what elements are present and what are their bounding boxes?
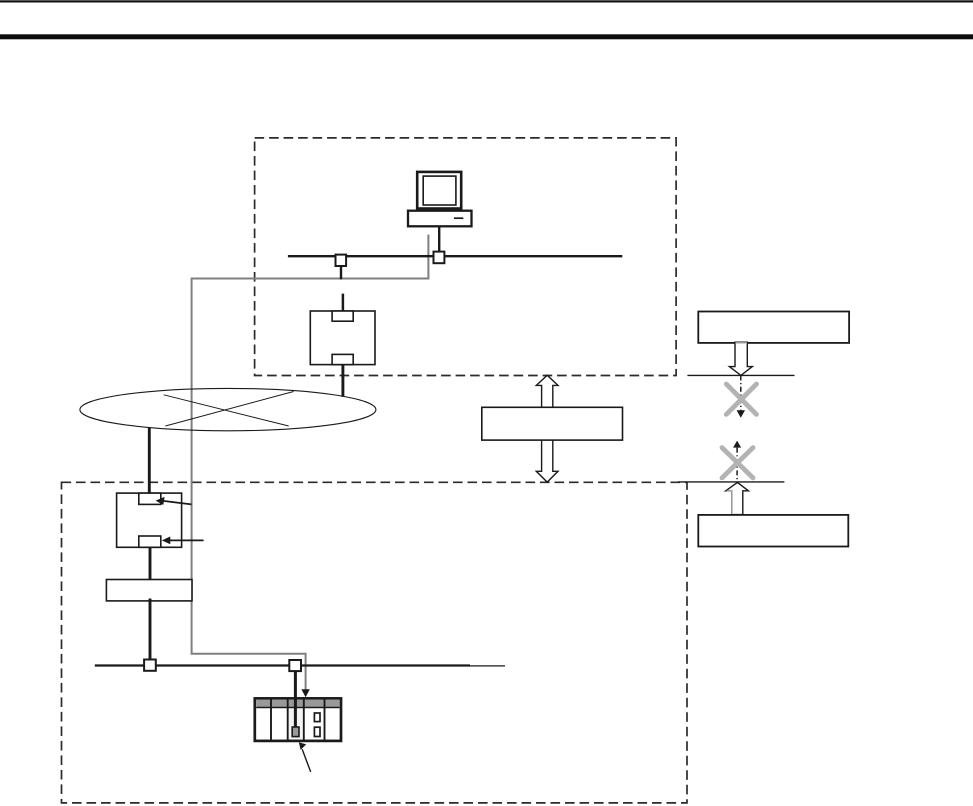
module indicator rects in slot 4 bbox=[314, 713, 320, 722]
label rectangle below lower module bbox=[106, 580, 192, 601]
wire: stub above upper network module bbox=[342, 294, 345, 312]
pointer arrow to lower port of lower module bbox=[162, 537, 204, 545]
wire: stub below tap T1 bbox=[340, 266, 342, 280]
tap connector T4 on lower bus (PLC) bbox=[289, 660, 301, 671]
wire: ellipse down to lower network module bbox=[148, 427, 151, 493]
Ethernet module connector (gray) inside rack bbox=[292, 727, 299, 737]
right lower label box bbox=[698, 515, 848, 547]
dashed box: lower system (PLC side) bbox=[62, 482, 688, 803]
wire: lower module down to bus (passes behind label rect) bbox=[149, 547, 152, 660]
pointer arrow to upper port of lower module bbox=[156, 497, 192, 505]
header thin rule bbox=[0, 0, 973, 2]
dash-dot blocked path (up) bbox=[733, 441, 741, 482]
center label box (over the double arrow) bbox=[482, 407, 623, 440]
computer (monitor) bbox=[417, 172, 461, 209]
tap connector T2 on upper bus (computer) bbox=[434, 252, 445, 264]
X mark (blocked) lower bbox=[722, 448, 753, 478]
boundary solid line (right, upper) bbox=[687, 374, 794, 376]
computer (base unit) bbox=[408, 211, 472, 227]
hollow up arrow from right lower box bbox=[726, 482, 749, 514]
tap connector T3 on lower bus bbox=[144, 660, 156, 671]
dash-dot blocked path (down) bbox=[737, 375, 745, 417]
Ethernet bus (lower) bbox=[95, 664, 505, 667]
network ellipse (MELSECNET) bbox=[80, 388, 376, 430]
PLC rack bbox=[255, 698, 341, 741]
header thick rule bbox=[0, 34, 973, 39]
gray route line (computer -> PLC path) bbox=[192, 235, 429, 698]
right upper label box bbox=[698, 312, 849, 343]
wire: upper module down to network ellipse bbox=[341, 365, 344, 397]
dashed box: upper system (personal computer side) bbox=[255, 138, 676, 376]
big double-headed hollow arrow between systems bbox=[536, 375, 558, 482]
pointer arrow to PLC Ethernet module from below bbox=[299, 742, 311, 772]
upper network module (relay station) bbox=[310, 311, 375, 365]
wire: re-entry of vertical through label rect bottom bbox=[149, 599, 152, 602]
lower network module (relay station) bbox=[117, 493, 182, 547]
X mark (blocked) upper bbox=[726, 384, 756, 414]
tap connector T1 on upper bus bbox=[336, 255, 347, 266]
hollow down arrow from right upper box bbox=[729, 342, 752, 375]
boundary solid line (right, lower) bbox=[678, 481, 784, 483]
wire: computer drop to Ethernet bus bbox=[438, 227, 440, 252]
Ethernet bus (upper) bbox=[288, 255, 622, 257]
wire: tap T4 down into Ethernet module of PLC bbox=[294, 671, 297, 729]
